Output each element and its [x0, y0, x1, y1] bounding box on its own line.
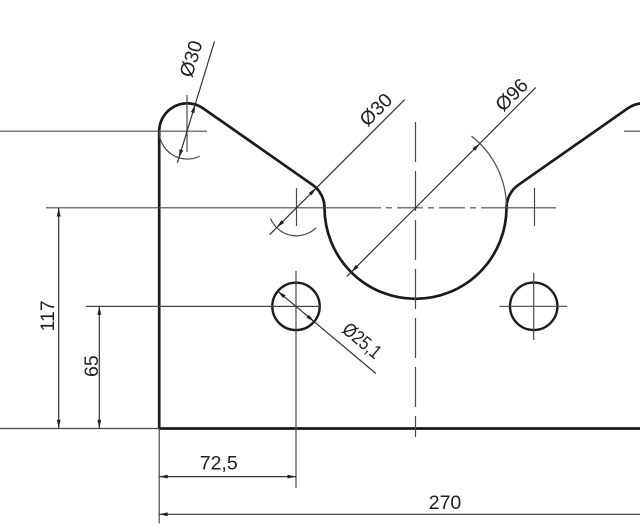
part outline (plate with V-notch and rounded corners) — [159, 103, 640, 428]
leader line D25,1 — [278, 291, 376, 373]
centerline horizontal of top-right corner circle — [624, 130, 640, 132]
vertical centerline right notch circle — [534, 188, 536, 226]
thin arc: remainder of top-left corner circle D30 — [159, 131, 200, 159]
vertical centerline left notch circle — [296, 188, 298, 226]
leader line D96 — [347, 88, 536, 277]
hole right — [510, 283, 557, 330]
svg-text:117: 117 — [37, 300, 59, 331]
left hole vertical centerline / extension for 72,5 — [295, 271, 297, 488]
hole D25,1 left — [272, 283, 319, 330]
bottom edge extension line to left image edge — [0, 428, 159, 430]
extension line 117 / horizontal centerline solid part — [46, 207, 355, 209]
thin arc: remainder of left notch circle D30 — [271, 218, 317, 236]
centerline horizontal of top-left corner circle — [0, 130, 207, 132]
dimension 72,5 line — [159, 476, 296, 478]
right hole vertical centerline — [533, 273, 535, 340]
leader line D30 top-left corner circle — [177, 41, 214, 163]
dash-dot horizontal centerline of D96 circle — [355, 207, 507, 209]
dashed vertical centerline of D96 circle — [415, 122, 417, 437]
leader line D30 notch circle — [270, 100, 405, 235]
svg-text:65: 65 — [81, 355, 103, 377]
right hole horizontal centerline — [499, 305, 567, 307]
left edge extension line downward — [158, 429, 160, 524]
horizontal centerline right notch circle — [507, 207, 557, 209]
left hole horizontal centerline / extension for 65 — [86, 305, 320, 307]
thin arc: upper-right part of D96 circle — [472, 136, 507, 208]
centerline vertical of top-left corner circle — [186, 95, 188, 152]
dimension 270 line — [159, 513, 640, 515]
svg-text:72,5: 72,5 — [200, 453, 238, 475]
svg-text:270: 270 — [429, 492, 462, 514]
dimension 117 line — [58, 208, 60, 428]
dimension 65 line — [98, 306, 100, 428]
